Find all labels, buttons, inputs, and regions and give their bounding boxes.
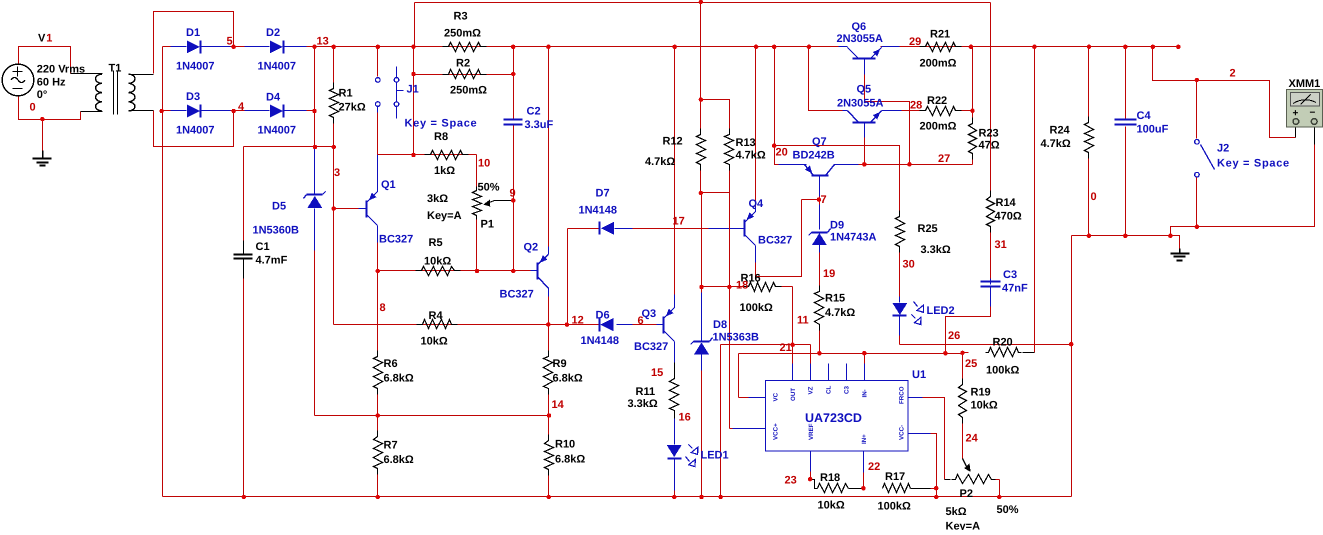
svg-text:3: 3 — [334, 167, 340, 179]
svg-text:R21: R21 — [930, 29, 950, 41]
svg-text:31: 31 — [995, 239, 1007, 251]
svg-text:BC327: BC327 — [500, 289, 534, 301]
svg-text:Key = Space: Key = Space — [1217, 158, 1290, 170]
svg-text:LED1: LED1 — [701, 450, 729, 462]
svg-text:18: 18 — [736, 280, 748, 292]
svg-text:R8: R8 — [434, 131, 448, 143]
svg-text:VC: VC — [773, 392, 780, 401]
svg-text:8: 8 — [380, 302, 386, 314]
svg-text:D9: D9 — [830, 220, 844, 232]
svg-text:3.3kΩ: 3.3kΩ — [921, 244, 951, 256]
svg-text:BC327: BC327 — [634, 341, 668, 353]
svg-text:CL: CL — [826, 386, 833, 394]
svg-text:4.7kΩ: 4.7kΩ — [825, 307, 855, 319]
svg-text:200mΩ: 200mΩ — [920, 121, 957, 133]
svg-text:6: 6 — [638, 315, 644, 327]
svg-text:10kΩ: 10kΩ — [424, 256, 451, 268]
svg-text:47nF: 47nF — [1002, 283, 1028, 295]
svg-text:100kΩ: 100kΩ — [740, 302, 773, 314]
svg-text:15: 15 — [651, 367, 663, 379]
svg-text:10kΩ: 10kΩ — [818, 500, 845, 512]
svg-text:22: 22 — [868, 461, 880, 473]
svg-text:D7: D7 — [596, 188, 610, 200]
svg-text:VCC+: VCC+ — [773, 423, 780, 440]
svg-text:Key = Space: Key = Space — [405, 118, 478, 130]
svg-text:D6: D6 — [596, 310, 610, 322]
svg-text:1N5360B: 1N5360B — [253, 225, 300, 237]
svg-text:4.7kΩ: 4.7kΩ — [1041, 138, 1071, 150]
svg-text:Q4: Q4 — [749, 198, 765, 210]
svg-text:2: 2 — [1230, 68, 1236, 80]
svg-text:J1: J1 — [407, 84, 419, 96]
svg-text:250mΩ: 250mΩ — [444, 28, 481, 40]
svg-text:100kΩ: 100kΩ — [986, 365, 1019, 377]
svg-text:R1: R1 — [339, 88, 353, 100]
svg-text:Key=A: Key=A — [946, 521, 981, 531]
svg-text:T1: T1 — [109, 63, 122, 75]
svg-text:19: 19 — [823, 268, 835, 280]
svg-text:5: 5 — [227, 36, 233, 48]
svg-text:R11: R11 — [636, 386, 656, 398]
svg-text:Q1: Q1 — [381, 179, 396, 191]
svg-text:220 Vrms: 220 Vrms — [37, 64, 85, 76]
svg-text:6.8kΩ: 6.8kΩ — [384, 373, 414, 385]
svg-text:Q7: Q7 — [812, 136, 827, 148]
svg-text:UA723CD: UA723CD — [805, 411, 862, 425]
svg-text:30: 30 — [903, 259, 915, 271]
svg-text:J2: J2 — [1217, 143, 1229, 155]
svg-text:2N3055A: 2N3055A — [837, 33, 884, 45]
svg-text:9: 9 — [510, 188, 516, 200]
svg-text:R9: R9 — [553, 358, 567, 370]
svg-text:D1: D1 — [186, 27, 200, 39]
svg-text:LED2: LED2 — [927, 305, 955, 317]
svg-text:+: + — [1293, 108, 1299, 119]
svg-text:14: 14 — [552, 399, 565, 411]
svg-text:2N3055A: 2N3055A — [837, 98, 884, 110]
svg-text:R25: R25 — [918, 223, 938, 235]
svg-text:D2: D2 — [266, 27, 280, 39]
svg-text:4.7mF: 4.7mF — [256, 255, 288, 267]
svg-text:Q2: Q2 — [524, 242, 539, 254]
svg-text:0: 0 — [1091, 191, 1097, 203]
svg-text:D8: D8 — [713, 319, 727, 331]
svg-text:1N4148: 1N4148 — [581, 335, 620, 347]
svg-text:Q5: Q5 — [857, 84, 872, 96]
svg-text:C4: C4 — [1137, 110, 1152, 122]
svg-text:50%: 50% — [478, 182, 500, 194]
svg-text:1N5363B: 1N5363B — [713, 332, 760, 344]
svg-text:IN-: IN- — [862, 389, 869, 397]
svg-text:R7: R7 — [384, 440, 398, 452]
svg-text:1N4007: 1N4007 — [176, 61, 215, 73]
svg-text:0°: 0° — [37, 89, 48, 101]
svg-text:BC327: BC327 — [758, 235, 792, 247]
svg-text:R13: R13 — [736, 137, 756, 149]
svg-text:29: 29 — [909, 36, 921, 48]
svg-text:200mΩ: 200mΩ — [920, 58, 957, 70]
svg-text:60 Hz: 60 Hz — [37, 77, 66, 89]
svg-text:26: 26 — [948, 330, 960, 342]
svg-text:27: 27 — [938, 153, 950, 165]
svg-text:3.3kΩ: 3.3kΩ — [628, 398, 658, 410]
svg-text:3.3uF: 3.3uF — [525, 119, 554, 131]
svg-text:11: 11 — [797, 315, 809, 327]
svg-text:50%: 50% — [997, 504, 1019, 516]
svg-text:R17: R17 — [885, 471, 905, 483]
svg-text:1N4007: 1N4007 — [258, 61, 297, 73]
svg-text:VREF: VREF — [808, 423, 815, 440]
svg-text:1N4007: 1N4007 — [176, 125, 215, 137]
svg-text:0: 0 — [30, 102, 36, 114]
svg-text:VZ: VZ — [808, 386, 815, 394]
svg-text:1: 1 — [46, 33, 52, 45]
svg-text:R23: R23 — [979, 128, 999, 140]
svg-text:BC327: BC327 — [379, 234, 413, 246]
svg-text:13: 13 — [317, 36, 329, 48]
svg-text:7: 7 — [821, 194, 827, 206]
svg-text:R24: R24 — [1050, 125, 1071, 137]
svg-text:4: 4 — [238, 101, 245, 113]
svg-text:Q3: Q3 — [642, 308, 657, 320]
svg-text:470Ω: 470Ω — [995, 211, 1022, 223]
svg-text:21: 21 — [780, 342, 792, 354]
svg-text:10: 10 — [478, 158, 490, 170]
svg-text:C3: C3 — [844, 386, 851, 394]
svg-text:17: 17 — [673, 216, 685, 228]
svg-text:R19: R19 — [971, 387, 991, 399]
svg-text:20: 20 — [776, 147, 788, 159]
svg-text:OUT: OUT — [790, 388, 797, 401]
svg-text:1N4148: 1N4148 — [579, 205, 618, 217]
svg-text:XMM1: XMM1 — [1289, 78, 1321, 90]
svg-text:100uF: 100uF — [1137, 124, 1169, 136]
svg-text:10kΩ: 10kΩ — [421, 336, 448, 348]
svg-text:4.7kΩ: 4.7kΩ — [736, 150, 766, 162]
svg-text:R18: R18 — [820, 472, 840, 484]
svg-text:R22: R22 — [927, 95, 947, 107]
svg-text:R15: R15 — [825, 293, 845, 305]
svg-text:P2: P2 — [960, 488, 973, 500]
svg-text:FRCO: FRCO — [899, 386, 906, 404]
svg-text:10kΩ: 10kΩ — [971, 400, 998, 412]
svg-text:1N4743A: 1N4743A — [830, 232, 877, 244]
svg-text:R4: R4 — [429, 310, 444, 322]
svg-text:BD242B: BD242B — [793, 150, 835, 162]
svg-text:6.8kΩ: 6.8kΩ — [555, 454, 585, 466]
svg-text:D3: D3 — [186, 91, 200, 103]
svg-text:27kΩ: 27kΩ — [339, 102, 366, 114]
svg-text:24: 24 — [966, 433, 979, 445]
svg-text:C3: C3 — [1003, 269, 1017, 281]
svg-text:U1: U1 — [912, 369, 926, 381]
svg-text:16: 16 — [679, 412, 691, 424]
svg-text:R3: R3 — [454, 11, 468, 23]
svg-text:R6: R6 — [384, 358, 398, 370]
svg-text:R10: R10 — [555, 439, 575, 451]
svg-text:25: 25 — [965, 358, 977, 370]
svg-text:D4: D4 — [266, 92, 281, 104]
svg-text:6.8kΩ: 6.8kΩ — [553, 373, 583, 385]
svg-text:P1: P1 — [481, 219, 494, 231]
svg-text:1N4007: 1N4007 — [258, 125, 297, 137]
svg-text:47Ω: 47Ω — [979, 140, 1000, 152]
svg-text:IN+: IN+ — [861, 434, 868, 444]
svg-text:4.7kΩ: 4.7kΩ — [645, 156, 675, 168]
svg-text:−: − — [1310, 108, 1316, 119]
svg-text:3kΩ: 3kΩ — [427, 193, 448, 205]
svg-text:R5: R5 — [429, 237, 443, 249]
svg-text:100kΩ: 100kΩ — [878, 501, 911, 513]
svg-text:C1: C1 — [256, 241, 270, 253]
svg-text:D5: D5 — [272, 201, 286, 213]
svg-text:6.8kΩ: 6.8kΩ — [384, 454, 414, 466]
svg-text:250mΩ: 250mΩ — [450, 85, 487, 97]
svg-text:1kΩ: 1kΩ — [434, 165, 455, 177]
svg-text:23: 23 — [785, 475, 797, 487]
svg-text:VCC-: VCC- — [899, 425, 906, 440]
svg-text:5kΩ: 5kΩ — [946, 506, 967, 518]
svg-text:R20: R20 — [993, 337, 1013, 349]
svg-text:C2: C2 — [527, 106, 541, 118]
svg-text:Q6: Q6 — [852, 21, 867, 33]
svg-text:R14: R14 — [996, 197, 1017, 209]
svg-text:28: 28 — [910, 100, 922, 112]
svg-text:R12: R12 — [663, 136, 683, 148]
svg-text:Key=A: Key=A — [427, 210, 462, 222]
svg-text:12: 12 — [572, 315, 584, 327]
svg-text:R2: R2 — [456, 58, 470, 70]
svg-text:V: V — [38, 33, 46, 45]
